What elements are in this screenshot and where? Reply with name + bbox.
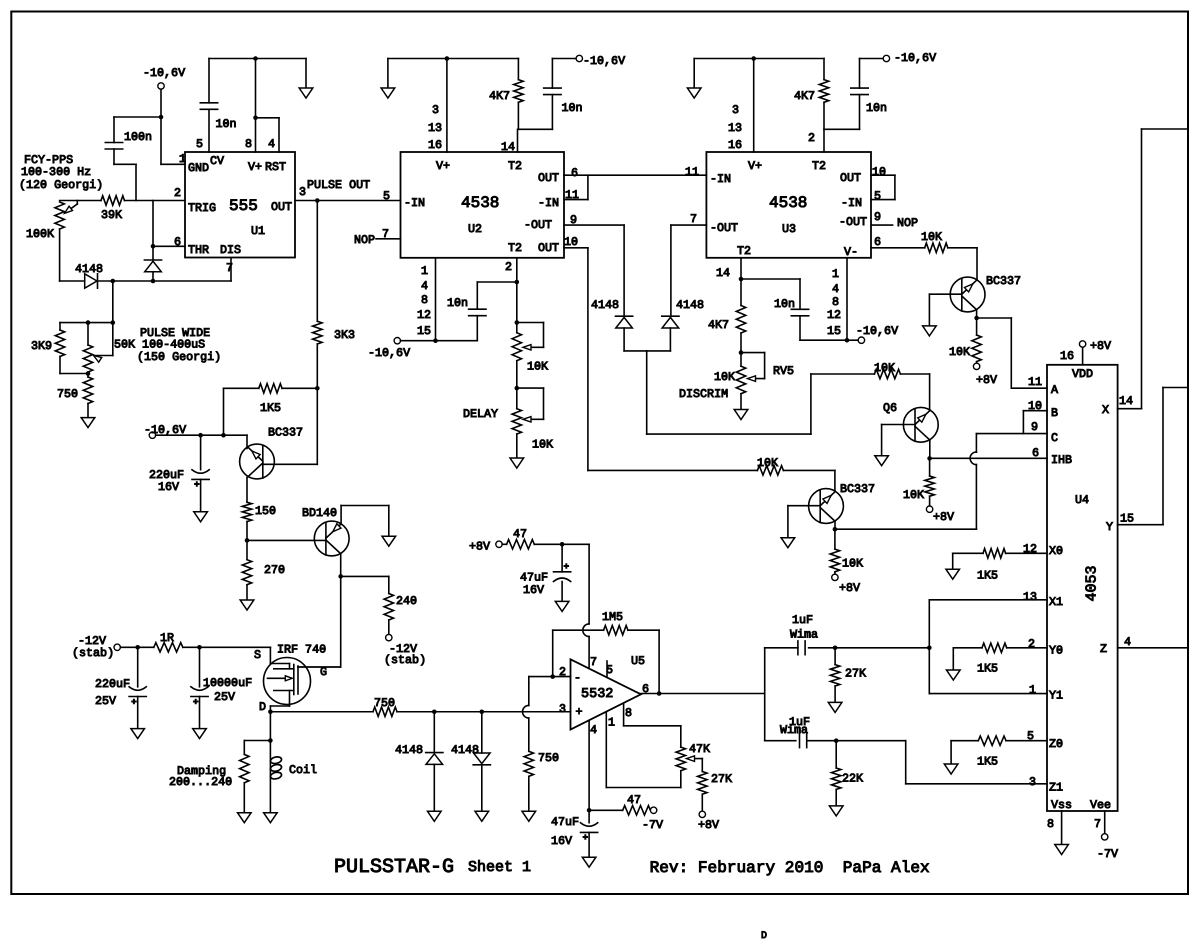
svg-text:10: 10 [1028, 399, 1042, 413]
svg-text:4: 4 [590, 723, 597, 737]
svg-text:Wima: Wima [780, 723, 808, 737]
svg-text:5: 5 [383, 189, 390, 203]
svg-text:-IN: -IN [404, 196, 425, 210]
svg-text:7: 7 [690, 212, 697, 226]
svg-text:+8V: +8V [1090, 339, 1111, 353]
svg-text:16V: 16V [523, 583, 544, 597]
svg-text:6: 6 [1032, 446, 1039, 460]
svg-text:200...240: 200...240 [169, 775, 232, 789]
svg-text:-10,6V: -10,6V [894, 51, 936, 65]
svg-text:9: 9 [570, 213, 577, 227]
svg-text:1: 1 [179, 152, 186, 166]
svg-text:14: 14 [1119, 394, 1133, 408]
svg-text:-10,6V: -10,6V [583, 54, 625, 68]
svg-text:OUT: OUT [538, 241, 559, 255]
svg-text:10K: 10K [903, 488, 924, 502]
svg-text:5: 5 [1027, 729, 1034, 743]
svg-text:A: A [1051, 383, 1059, 397]
svg-text:DISCRIM: DISCRIM [679, 387, 728, 401]
svg-text:+: + [131, 697, 136, 707]
svg-text:10n: 10n [562, 101, 583, 115]
svg-text:16: 16 [1060, 349, 1074, 363]
svg-text:X1: X1 [1049, 595, 1063, 609]
svg-text:G: G [320, 665, 327, 679]
svg-text:6: 6 [571, 166, 578, 180]
svg-text:14: 14 [716, 266, 730, 280]
svg-text:X0: X0 [1049, 544, 1063, 558]
svg-text:13: 13 [1023, 590, 1037, 604]
svg-text:1K5: 1K5 [977, 662, 998, 676]
svg-text:8: 8 [421, 293, 428, 307]
svg-text:B: B [1051, 406, 1058, 420]
svg-text:7: 7 [590, 655, 597, 669]
svg-text:OUT: OUT [538, 171, 559, 185]
svg-text:Q6: Q6 [883, 401, 897, 415]
svg-text:1R: 1R [160, 631, 174, 645]
svg-text:4: 4 [832, 282, 839, 296]
svg-text:750: 750 [538, 751, 559, 765]
svg-text:3: 3 [432, 103, 439, 117]
svg-text:PULSSTAR-G: PULSSTAR-G [334, 856, 454, 879]
svg-text:16: 16 [428, 138, 442, 152]
svg-text:3: 3 [559, 702, 566, 716]
svg-text:4K7: 4K7 [708, 318, 729, 332]
svg-text:13: 13 [428, 121, 442, 135]
svg-text:4148: 4148 [676, 298, 704, 312]
svg-text:V-: V- [844, 245, 858, 259]
svg-text:8: 8 [832, 295, 839, 309]
svg-text:47: 47 [627, 793, 641, 807]
svg-text:10n: 10n [447, 296, 468, 310]
svg-text:Sheet 1: Sheet 1 [468, 859, 531, 876]
svg-text:DIS: DIS [220, 243, 241, 257]
svg-text:5532: 5532 [581, 687, 613, 702]
svg-text:7: 7 [1094, 817, 1101, 831]
svg-text:+8V: +8V [933, 510, 954, 524]
svg-text:-IN: -IN [710, 172, 731, 186]
svg-text:10K: 10K [921, 230, 942, 244]
svg-text:8: 8 [625, 706, 632, 720]
svg-text:4K7: 4K7 [489, 89, 510, 103]
svg-text:39K: 39K [101, 208, 122, 222]
svg-text:47uF: 47uF [551, 815, 579, 829]
svg-text:150: 150 [255, 504, 276, 518]
svg-text:10K: 10K [757, 456, 778, 470]
svg-text:2: 2 [559, 665, 566, 679]
svg-text:2: 2 [1028, 637, 1035, 651]
svg-text:11: 11 [685, 165, 699, 179]
svg-text:BC337: BC337 [986, 274, 1021, 288]
svg-text:+: + [576, 705, 583, 719]
svg-text:16V: 16V [158, 480, 179, 494]
svg-text:BC337: BC337 [840, 482, 875, 496]
svg-text:750: 750 [57, 387, 78, 401]
svg-text:IRF 740: IRF 740 [277, 643, 326, 657]
svg-text:7: 7 [226, 261, 233, 275]
svg-text:25V: 25V [214, 690, 235, 704]
svg-text:IHB: IHB [1051, 453, 1072, 467]
svg-text:(120 Georgi): (120 Georgi) [19, 178, 103, 192]
svg-text:12: 12 [827, 308, 841, 322]
svg-text:NOP: NOP [354, 233, 375, 247]
svg-text:10K: 10K [874, 361, 895, 375]
svg-text:T2: T2 [737, 244, 751, 258]
svg-text:VDD: VDD [1072, 367, 1093, 381]
svg-text:RST: RST [265, 160, 286, 174]
svg-text:CV: CV [210, 154, 224, 168]
svg-text:1M5: 1M5 [602, 610, 623, 624]
svg-text:+8V: +8V [839, 581, 860, 595]
svg-text:U4: U4 [1075, 493, 1089, 507]
svg-text:100-300 Hz: 100-300 Hz [21, 165, 91, 179]
svg-text:1K5: 1K5 [260, 401, 281, 415]
svg-text:10K: 10K [532, 438, 553, 452]
svg-text:15: 15 [827, 324, 841, 338]
svg-text:9: 9 [1031, 420, 1038, 434]
svg-text:-OUT: -OUT [710, 221, 738, 235]
svg-text:3K9: 3K9 [31, 339, 52, 353]
svg-text:220uF: 220uF [95, 677, 130, 691]
svg-text:+8V: +8V [976, 373, 997, 387]
svg-text:10n: 10n [866, 101, 887, 115]
svg-text:THR: THR [188, 243, 209, 257]
svg-text:-10,6V: -10,6V [368, 346, 410, 360]
svg-text:7: 7 [382, 227, 389, 241]
svg-text:D: D [259, 700, 266, 714]
svg-text:-7V: -7V [642, 818, 663, 832]
svg-text:25V: 25V [95, 694, 116, 708]
svg-text:U5: U5 [631, 654, 645, 668]
svg-text:-10,6V: -10,6V [143, 66, 185, 80]
svg-text:-OUT: -OUT [524, 218, 552, 232]
svg-text:555: 555 [229, 197, 258, 215]
svg-text:1: 1 [608, 716, 615, 730]
svg-text:Z1: Z1 [1049, 781, 1063, 795]
svg-text:4: 4 [1124, 635, 1131, 649]
svg-text:4148: 4148 [591, 298, 619, 312]
svg-text:Rev: February 2010 PaPa Alex: Rev: February 2010 PaPa Alex [650, 859, 930, 877]
svg-text:-10,6V: -10,6V [144, 423, 186, 437]
svg-text:-IN: -IN [538, 196, 559, 210]
svg-text:3: 3 [299, 185, 306, 199]
svg-text:BD140: BD140 [302, 506, 337, 520]
svg-text:X: X [1102, 403, 1109, 417]
svg-text:+: + [193, 697, 198, 707]
svg-text:2: 2 [808, 131, 815, 145]
svg-text:1: 1 [421, 264, 428, 278]
svg-text:U2: U2 [468, 222, 482, 236]
svg-text:10K: 10K [842, 557, 863, 571]
svg-text:+: + [194, 480, 199, 490]
svg-text:Vee: Vee [1090, 798, 1111, 812]
svg-text:11: 11 [565, 188, 579, 202]
svg-text:Y0: Y0 [1049, 644, 1063, 658]
svg-text:(stab): (stab) [384, 653, 426, 667]
svg-text:8: 8 [1047, 817, 1054, 831]
svg-text:10000uF: 10000uF [203, 676, 252, 690]
svg-text:12: 12 [417, 308, 431, 322]
svg-text:16V: 16V [551, 834, 572, 848]
svg-text:Coil: Coil [289, 763, 317, 777]
svg-text:4148: 4148 [75, 262, 103, 276]
svg-text:-: - [574, 671, 581, 685]
svg-text:V+: V+ [748, 159, 762, 173]
svg-text:10K: 10K [949, 345, 970, 359]
svg-text:OUT: OUT [271, 200, 292, 214]
svg-text:+: + [564, 562, 569, 572]
svg-text:+8V: +8V [698, 818, 719, 832]
svg-text:V+: V+ [436, 159, 450, 173]
svg-text:TRIG: TRIG [188, 201, 216, 215]
svg-text:C: C [1051, 431, 1058, 445]
svg-text:6: 6 [874, 235, 881, 249]
svg-text:4538: 4538 [461, 194, 499, 212]
svg-text:D: D [761, 931, 767, 942]
svg-text:-OUT: -OUT [839, 215, 867, 229]
svg-text:Y: Y [1106, 520, 1113, 534]
svg-text:100n: 100n [124, 130, 152, 144]
svg-text:10: 10 [564, 235, 578, 249]
svg-text:T2: T2 [508, 241, 522, 255]
svg-text:1: 1 [1029, 683, 1036, 697]
svg-text:BC337: BC337 [268, 426, 303, 440]
svg-text:T2: T2 [812, 159, 826, 173]
svg-text:V+: V+ [248, 160, 262, 174]
svg-text:U1: U1 [251, 224, 265, 238]
svg-text:4053: 4053 [1084, 565, 1101, 601]
svg-text:2: 2 [174, 186, 181, 200]
svg-text:RV5: RV5 [773, 364, 794, 378]
svg-text:47: 47 [513, 527, 527, 541]
svg-text:22K: 22K [842, 772, 863, 786]
svg-text:1K5: 1K5 [977, 755, 998, 769]
svg-text:Z: Z [1100, 642, 1107, 656]
svg-text:5: 5 [196, 137, 203, 151]
svg-text:4148: 4148 [395, 743, 423, 757]
svg-text:T2: T2 [508, 159, 522, 173]
svg-text:11: 11 [1028, 375, 1042, 389]
svg-text:13: 13 [728, 121, 742, 135]
svg-text:3K3: 3K3 [334, 328, 355, 342]
svg-text:-7V: -7V [1097, 847, 1118, 861]
svg-text:4: 4 [268, 137, 275, 151]
svg-text:270: 270 [264, 563, 285, 577]
svg-text:4K7: 4K7 [794, 89, 815, 103]
svg-text:(stab): (stab) [72, 646, 114, 660]
svg-text:+8V: +8V [469, 540, 490, 554]
svg-text:8: 8 [245, 137, 252, 151]
svg-text:27K: 27K [845, 667, 866, 681]
svg-text:10n: 10n [774, 297, 795, 311]
svg-text:100K: 100K [26, 227, 54, 241]
svg-text:1K5: 1K5 [977, 569, 998, 583]
svg-text:-10,6V: -10,6V [856, 324, 898, 338]
svg-text:6: 6 [174, 235, 181, 249]
svg-text:3: 3 [732, 103, 739, 117]
svg-text:5: 5 [606, 663, 613, 677]
svg-text:10: 10 [872, 165, 886, 179]
svg-text:Vss: Vss [1051, 798, 1072, 812]
svg-text:-IN: -IN [841, 196, 862, 210]
svg-text:6: 6 [642, 682, 649, 696]
svg-text:PULSE OUT: PULSE OUT [307, 178, 370, 192]
svg-text:12: 12 [1023, 542, 1037, 556]
svg-text:S: S [254, 648, 261, 662]
svg-text:DELAY: DELAY [463, 407, 498, 421]
svg-text:240: 240 [396, 594, 417, 608]
svg-text:Wima: Wima [790, 628, 818, 642]
svg-text:14: 14 [501, 140, 515, 154]
svg-text:47K: 47K [689, 742, 710, 756]
svg-text:4538: 4538 [769, 194, 807, 212]
svg-text:15: 15 [417, 324, 431, 338]
svg-text:750: 750 [374, 696, 395, 710]
svg-text:(150 Georgi): (150 Georgi) [137, 350, 221, 364]
svg-text:3: 3 [1029, 775, 1036, 789]
svg-text:1uF: 1uF [792, 613, 813, 627]
svg-text:U3: U3 [782, 222, 796, 236]
svg-text:1: 1 [832, 267, 839, 281]
svg-text:NOP: NOP [897, 216, 918, 230]
svg-text:Y1: Y1 [1049, 689, 1063, 703]
svg-text:9: 9 [874, 210, 881, 224]
svg-text:GND: GND [188, 161, 209, 175]
svg-text:+: + [583, 833, 588, 843]
svg-text:15: 15 [1120, 512, 1134, 526]
svg-text:16: 16 [728, 138, 742, 152]
svg-text:OUT: OUT [840, 171, 861, 185]
svg-text:Z0: Z0 [1049, 737, 1063, 751]
svg-text:2: 2 [505, 260, 512, 274]
svg-text:27K: 27K [711, 772, 732, 786]
svg-text:5: 5 [874, 189, 881, 203]
svg-text:10K: 10K [527, 360, 548, 374]
svg-text:10n: 10n [216, 117, 237, 131]
svg-text:4148: 4148 [451, 743, 479, 757]
svg-text:4: 4 [421, 279, 428, 293]
svg-text:10K: 10K [714, 370, 735, 384]
